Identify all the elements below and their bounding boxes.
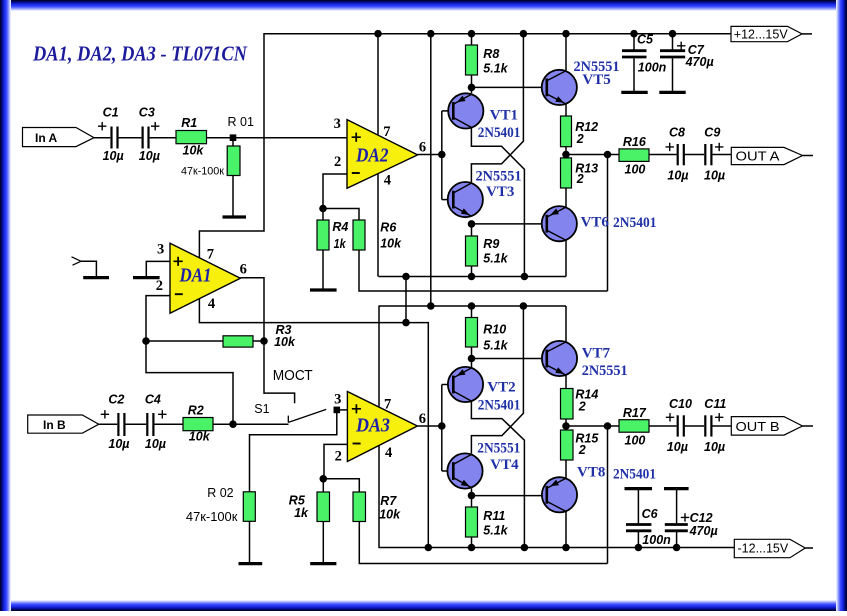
svg-text:5.1k: 5.1k [483,252,508,266]
svg-text:C10: C10 [669,397,692,411]
svg-text:10µ: 10µ [103,149,124,163]
svg-text:470µ: 470µ [689,524,718,538]
svg-text:OUT B: OUT B [736,419,780,434]
svg-text:VT1: VT1 [490,107,518,123]
svg-text:C9: C9 [704,126,720,140]
svg-text:4: 4 [384,172,391,188]
svg-text:2N5401: 2N5401 [478,125,521,141]
svg-text:47к-100к: 47к-100к [186,510,238,524]
svg-text:VT2: VT2 [487,380,515,396]
svg-text:10µ: 10µ [139,149,160,163]
svg-text:10k: 10k [274,335,296,349]
svg-text:1k: 1k [294,506,309,520]
svg-text:C6: C6 [642,507,659,521]
svg-text:VT7: VT7 [582,345,611,361]
svg-text:C8: C8 [669,126,685,140]
svg-text:10µ: 10µ [667,169,688,183]
svg-text:4: 4 [208,296,215,312]
svg-text:2N5401: 2N5401 [478,397,521,413]
svg-text:C12: C12 [690,511,713,525]
svg-text:R16: R16 [623,135,647,149]
svg-text:R1: R1 [181,116,197,130]
svg-text:3: 3 [334,392,341,408]
svg-text:R11: R11 [483,509,505,523]
svg-text:2N5551: 2N5551 [476,169,522,185]
svg-text:DA1: DA1 [179,264,212,286]
svg-text:VT6: VT6 [581,215,610,231]
svg-text:3: 3 [334,116,341,132]
svg-text:S1: S1 [254,402,269,416]
svg-text:VT5: VT5 [582,72,610,88]
svg-text:100: 100 [625,162,646,176]
svg-text:100n: 100n [642,533,671,547]
svg-text:2: 2 [335,449,342,465]
svg-text:-12...15V: -12...15V [738,542,789,556]
svg-text:5.1k: 5.1k [483,338,508,352]
svg-text:470µ: 470µ [685,55,714,69]
svg-text:100n: 100n [638,61,667,75]
svg-text:C4: C4 [145,393,161,407]
svg-text:100: 100 [625,434,646,448]
svg-text:2: 2 [334,154,341,170]
svg-text:R2: R2 [188,404,204,418]
svg-text:+12...15V: +12...15V [734,28,789,42]
svg-text:2N5401: 2N5401 [613,466,656,482]
svg-text:VT4: VT4 [490,457,519,473]
svg-text:10µ: 10µ [704,440,725,454]
svg-text:In B: In B [43,418,66,432]
svg-text:R 01: R 01 [228,115,254,129]
svg-text:10k: 10k [183,143,205,157]
svg-text:C3: C3 [139,105,155,119]
svg-text:R 02: R 02 [207,486,233,500]
svg-text:OUT A: OUT A [736,148,780,163]
svg-text:2: 2 [576,132,584,146]
svg-text:2N5401: 2N5401 [613,215,657,231]
svg-text:1k: 1k [334,237,347,251]
svg-text:47к-100к: 47к-100к [181,166,224,178]
svg-text:C2: C2 [108,393,124,407]
svg-text:7: 7 [207,247,214,263]
svg-text:10µ: 10µ [108,437,129,451]
svg-text:7: 7 [384,397,391,413]
svg-text:2: 2 [578,443,586,457]
svg-text:2: 2 [156,278,163,294]
svg-text:10k: 10k [189,430,211,444]
svg-text:R10: R10 [483,323,506,337]
svg-text:5.1k: 5.1k [483,524,508,538]
svg-text:2N5551: 2N5551 [477,440,520,456]
svg-text:10µ: 10µ [145,437,166,451]
svg-text:VT8: VT8 [577,465,605,481]
svg-text:R4: R4 [332,220,348,234]
svg-text:5.1k: 5.1k [483,61,508,75]
svg-text:R6: R6 [380,220,397,234]
svg-text:10µ: 10µ [704,169,725,183]
svg-text:6: 6 [419,411,426,427]
svg-text:10k: 10k [379,508,401,522]
svg-text:R9: R9 [483,237,499,251]
svg-text:2N5551: 2N5551 [582,363,628,379]
svg-text:7: 7 [383,124,390,140]
svg-text:4: 4 [385,445,392,461]
svg-text:10µ: 10µ [667,440,688,454]
svg-text:R8: R8 [483,47,499,61]
svg-text:In A: In A [35,131,58,145]
svg-text:МОСТ: МОСТ [273,367,313,384]
svg-text:6: 6 [419,140,426,156]
svg-text:DA1, DA2, DA3 - TL071CN: DA1, DA2, DA3 - TL071CN [32,42,248,66]
svg-text:6: 6 [240,262,247,278]
svg-text:VT3: VT3 [486,184,514,200]
svg-text:2: 2 [578,400,586,414]
svg-text:3: 3 [157,242,164,258]
svg-text:C1: C1 [103,105,119,119]
svg-text:10k: 10k [380,237,402,251]
svg-text:C11: C11 [704,397,726,411]
svg-text:C5: C5 [637,33,654,47]
svg-text:DA3: DA3 [355,415,390,437]
svg-text:2: 2 [576,172,584,186]
svg-text:R17: R17 [623,406,647,420]
svg-text:R7: R7 [380,494,397,508]
svg-text:DA2: DA2 [355,144,388,166]
